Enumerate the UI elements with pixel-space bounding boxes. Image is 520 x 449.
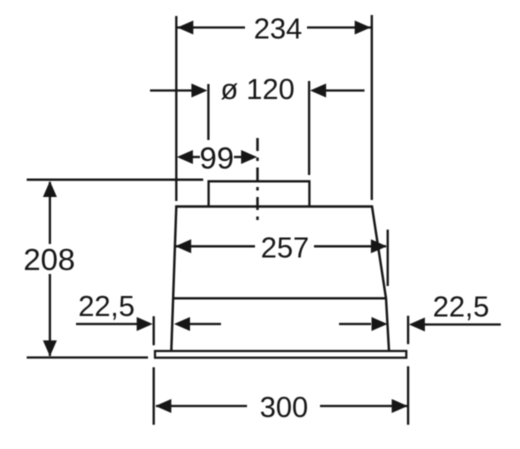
centerline (dash-dot) of duct <box>256 138 259 222</box>
dimension line 208 (vertical) <box>49 182 51 356</box>
dimension line 300 <box>156 405 407 407</box>
hood body outline (trapezoid + lower box) <box>171 207 389 352</box>
svg-text:99: 99 <box>200 140 234 175</box>
svg-text:208: 208 <box>23 242 75 277</box>
label 22,5 left <box>78 291 134 323</box>
mounting surface line bottom for dim 208 <box>27 356 148 358</box>
hood body mid line <box>172 297 386 299</box>
svg-text:257: 257 <box>261 232 309 264</box>
extension line (dashed) right edge of base plate <box>407 316 409 425</box>
arrowhead inner right <box>372 317 388 331</box>
extension line right of dim ø120 <box>308 81 310 175</box>
arrowhead 300 left <box>155 399 171 413</box>
duct stub on hood top <box>209 181 310 206</box>
label ø 120 <box>221 74 295 106</box>
dimension line 234 <box>177 26 371 28</box>
svg-text:ø 120: ø 120 <box>221 74 295 106</box>
arrowhead 99 left <box>177 150 193 164</box>
dimension line 257 <box>176 245 386 247</box>
label 208 <box>22 242 77 277</box>
label 300 <box>247 392 320 424</box>
dimension line 22,5 right (arrow outside) <box>422 323 501 325</box>
arrowhead inner left <box>174 317 190 331</box>
dimension line 99 left stub <box>192 156 200 158</box>
extension line right of dim 234 <box>371 15 373 200</box>
arrowhead 22,5 right <box>409 318 425 332</box>
arrowhead 22,5 left <box>137 317 153 331</box>
arrowhead 208 down <box>43 340 57 356</box>
svg-text:300: 300 <box>260 392 308 424</box>
extension line (dashed) left edge of base plate <box>153 316 155 425</box>
svg-text:234: 234 <box>254 14 302 46</box>
label 22,5 right <box>433 292 489 324</box>
inner dimension stub left (arrow to hood side) <box>189 323 221 325</box>
label 234 <box>245 14 307 46</box>
label 99 <box>200 140 234 175</box>
base plate <box>155 351 406 358</box>
extension line right for dim 257 <box>387 230 389 286</box>
dimension line 99 right stub <box>234 156 242 158</box>
extension line top for dim 208 <box>27 179 204 181</box>
dimension line ø120 left (arrow outside) <box>150 89 194 91</box>
dimension line ø120 right (arrow outside) <box>324 89 365 91</box>
arrowhead 234 right <box>355 21 371 35</box>
extension line left of dim 234 / 99 <box>175 16 177 201</box>
inner dimension stub right (arrow to hood side) <box>339 323 371 325</box>
arrowhead 99 right <box>241 150 257 164</box>
arrowhead 208 up <box>43 181 57 197</box>
arrowhead 257 left <box>175 239 191 253</box>
label 257 <box>255 232 314 264</box>
arrowhead ø120 right <box>310 84 326 98</box>
arrowhead ø120 left <box>191 84 207 98</box>
arrowhead 300 right <box>392 399 408 413</box>
arrowhead 234 left <box>177 21 193 35</box>
dimension line 22,5 left (arrow outside) <box>76 323 139 325</box>
arrowhead 257 right <box>371 239 387 253</box>
svg-text:22,5: 22,5 <box>78 291 134 323</box>
svg-text:22,5: 22,5 <box>433 292 489 324</box>
extension line left of dim ø120 <box>207 84 209 140</box>
